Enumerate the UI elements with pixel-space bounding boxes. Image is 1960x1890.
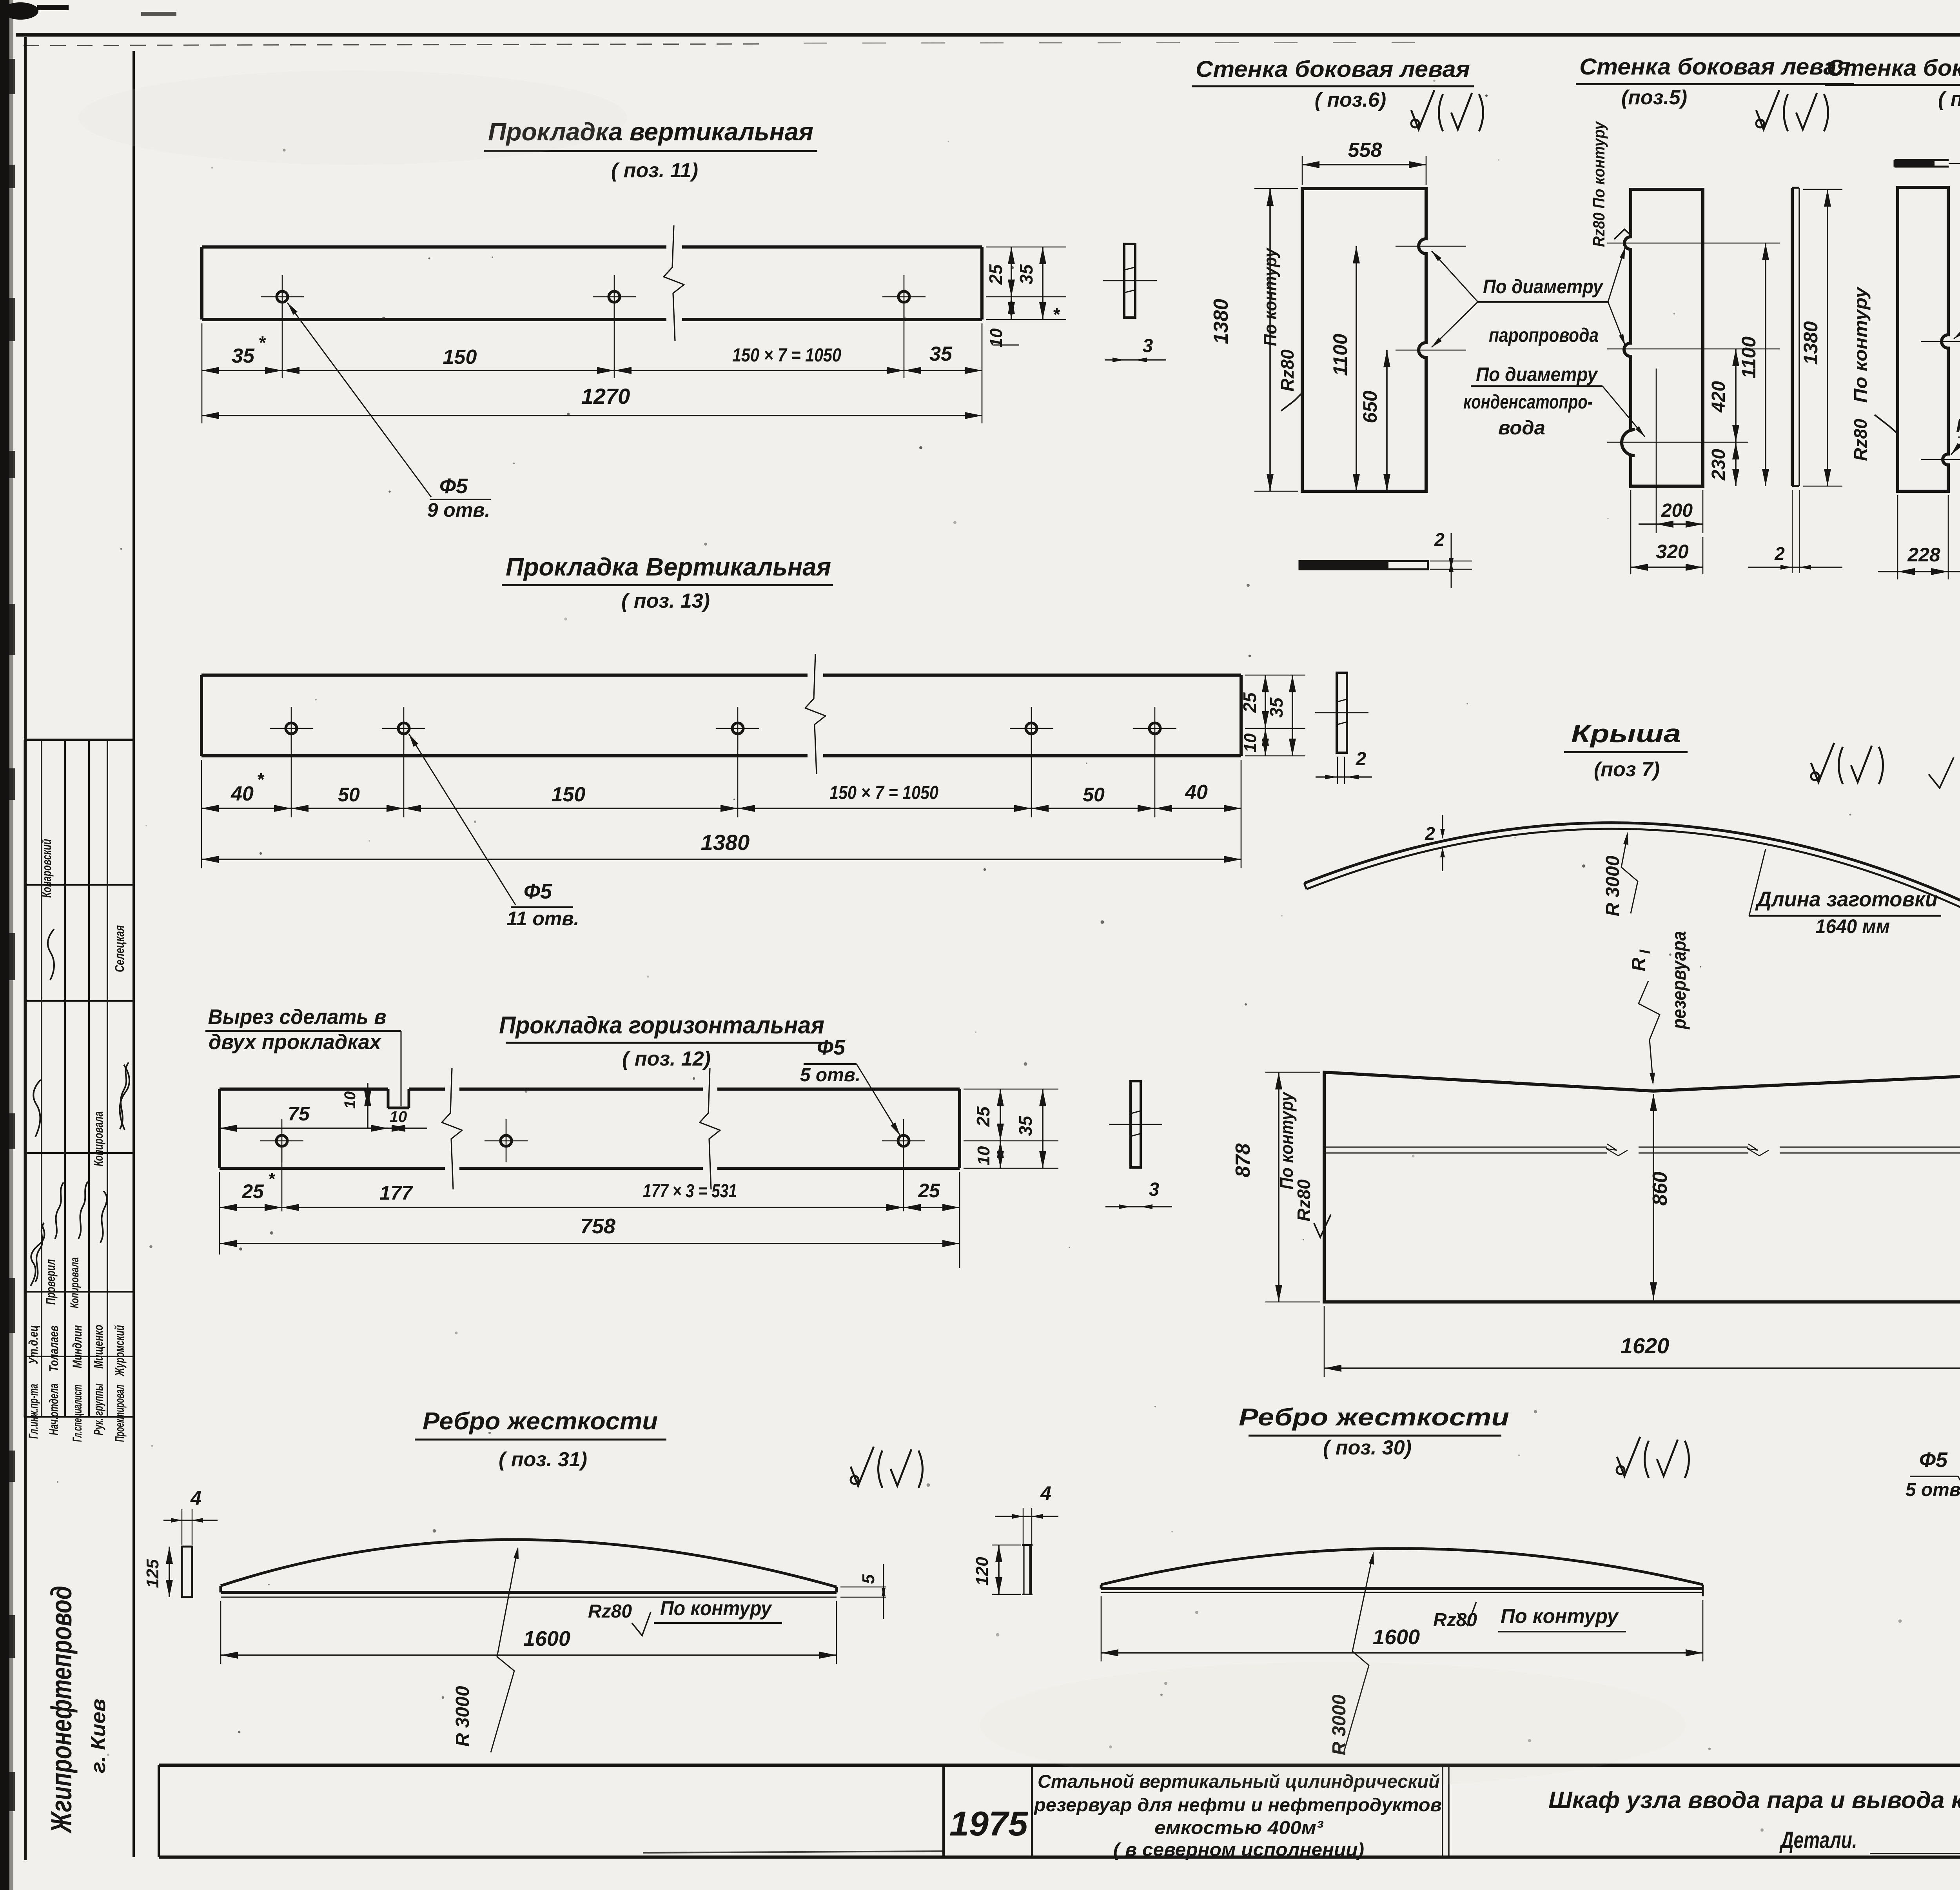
- svg-text:Прокладка горизонтальная: Прокладка горизонтальная: [499, 1012, 824, 1039]
- svg-text:(поз 7): (поз 7): [1594, 758, 1660, 781]
- pos11 hole 3: [898, 291, 909, 302]
- pos11 hole 1: [277, 291, 288, 302]
- pos11 right dims 25/35/10: [986, 247, 1066, 248]
- svg-text:R: R: [1628, 957, 1649, 971]
- pos11 side view bar: [1124, 244, 1135, 318]
- svg-text:Ф5: Ф5: [439, 474, 468, 498]
- svg-text:Мищенко: Мищенко: [91, 1325, 105, 1369]
- svg-text:35: 35: [1016, 264, 1036, 285]
- pos13 dim row2: 1380: [201, 859, 1241, 860]
- svg-text:40: 40: [1185, 781, 1208, 804]
- pos5 dim 1100: [1765, 243, 1766, 486]
- svg-text:177: 177: [379, 1182, 413, 1204]
- svg-text:150 × 7 = 1050: 150 × 7 = 1050: [829, 783, 938, 803]
- svg-text:*: *: [1053, 304, 1060, 325]
- svg-text:50: 50: [338, 784, 360, 806]
- pos11 break: [664, 225, 684, 341]
- pos6 dim 1380: [1254, 188, 1298, 189]
- pos12 dim row1: [220, 1207, 960, 1208]
- svg-text:150: 150: [443, 346, 477, 369]
- svg-text:Шкаф узла ввода пара и вывода: Шкаф узла ввода пара и вывода конденсата…: [1548, 1787, 1960, 1813]
- pos13 dim row1: [201, 808, 1241, 809]
- svg-text:35: 35: [1015, 1115, 1036, 1136]
- svg-text:Стенка боковая левая: Стенка боковая левая: [1196, 56, 1470, 82]
- svg-text:( поз. 31): ( поз. 31): [499, 1448, 587, 1471]
- pos11 hole label F5 / 9 otv: [287, 303, 431, 497]
- svg-text:125: 125: [143, 1559, 162, 1588]
- svg-text:320: 320: [1656, 541, 1689, 563]
- svg-text:Копировала: Копировала: [68, 1257, 81, 1308]
- pos13 ext lines: [201, 760, 202, 868]
- pos32 notch center lines: [1921, 341, 1960, 342]
- svg-text:конденсатопро-: конденсатопро-: [1463, 391, 1593, 413]
- svg-text:25: 25: [918, 1180, 940, 1202]
- pos5 dim 200: [1702, 490, 1704, 533]
- svg-text:758: 758: [580, 1215, 615, 1238]
- scan double line under frame: [24, 44, 764, 45]
- svg-text:1100: 1100: [1738, 336, 1760, 379]
- pos12 side view bar: [1131, 1081, 1141, 1167]
- pos5 finish mark: [1756, 90, 1779, 129]
- svg-text:*: *: [268, 1169, 275, 1189]
- pos13 hole x2631: [1026, 723, 1037, 734]
- svg-text:Копировала: Копировала: [91, 1111, 105, 1166]
- svg-text:25: 25: [1240, 692, 1260, 713]
- svg-text:( в северном исполнении): ( в северном исполнении): [1113, 1839, 1364, 1860]
- svg-text:4: 4: [190, 1487, 201, 1509]
- pos32 panel outline: [1898, 187, 1948, 491]
- svg-text:Прокладка Вертикальная: Прокладка Вертикальная: [506, 553, 831, 581]
- svg-text:*: *: [257, 769, 265, 790]
- svg-text:Гл.инж.пр-та: Гл.инж.пр-та: [26, 1384, 40, 1439]
- svg-text:емкостью 400м³: емкостью 400м³: [1154, 1817, 1323, 1838]
- svg-text:228: 228: [1907, 544, 1940, 566]
- pos31 finish mark: [851, 1447, 874, 1486]
- svg-text:200: 200: [1661, 500, 1693, 521]
- pos12 holes: [276, 1135, 287, 1146]
- svg-text:10: 10: [390, 1108, 407, 1126]
- svg-text:1620: 1620: [1621, 1333, 1670, 1358]
- pos7 fold line breaks: [1606, 1144, 1628, 1156]
- pos5 dim 320: [1630, 490, 1632, 574]
- pos12 dim row2: 758: [959, 1172, 960, 1268]
- svg-text:150 × 7 = 1050: 150 × 7 = 1050: [732, 345, 841, 366]
- svg-text:По контуру: По контуру: [1501, 1605, 1619, 1628]
- svg-text:35: 35: [1266, 697, 1287, 718]
- svg-text:( поз. 32): ( поз. 32): [1938, 88, 1960, 111]
- svg-text:5 отв.: 5 отв.: [1906, 1480, 1960, 1500]
- pos6 finish mark: [1411, 90, 1434, 129]
- pos31 side view bar: [182, 1547, 192, 1597]
- svg-text:2: 2: [1425, 823, 1435, 844]
- pos7 dim 860: [1653, 1094, 1654, 1302]
- svg-text:177 × 3 = 531: 177 × 3 = 531: [643, 1181, 737, 1202]
- svg-text:558: 558: [1348, 139, 1382, 162]
- svg-text:Ф5: Ф5: [524, 880, 552, 903]
- svg-text:1100: 1100: [1329, 334, 1351, 376]
- svg-text:г. Киев: г. Киев: [87, 1699, 110, 1773]
- svg-text:1600: 1600: [1373, 1625, 1420, 1649]
- pos11 side thickness dim 3: [1105, 359, 1166, 360]
- svg-text:1600: 1600: [523, 1627, 570, 1650]
- svg-text:( поз. 12): ( поз. 12): [622, 1048, 711, 1070]
- pos6 notch center lines: [1396, 246, 1466, 247]
- svg-text:( поз. 13): ( поз. 13): [621, 590, 710, 612]
- pos13 right dims 25/35/10: [1245, 675, 1305, 676]
- svg-text:860: 860: [1649, 1172, 1671, 1206]
- stamp table grid: [25, 739, 134, 741]
- pos5 side view bar: [1791, 188, 1794, 486]
- pos6 bottom side view: [1299, 561, 1428, 569]
- svg-text:Rz80: Rz80: [1433, 1610, 1477, 1630]
- pos5 dim 420: [1735, 349, 1737, 442]
- pos13 hole x1882: [732, 723, 743, 734]
- svg-text:Rz80 По контуру: Rz80 По контуру: [1590, 121, 1608, 247]
- pos13 hole x1030: [398, 723, 409, 734]
- pos13 side thickness dim 2: [1316, 776, 1372, 777]
- svg-text:Гл.специалист: Гл.специалист: [70, 1385, 84, 1442]
- svg-text:резервуар для нефти и нефтепро: резервуар для нефти и нефтепродуктов: [1033, 1794, 1442, 1815]
- svg-text:Проектировал: Проектировал: [113, 1385, 127, 1442]
- svg-text:1640 мм: 1640 мм: [1815, 915, 1890, 937]
- svg-text:Ф5: Ф5: [817, 1036, 846, 1059]
- pos13 hole x743: [286, 723, 297, 734]
- frame left second line (stamp right edge): [132, 51, 135, 1857]
- svg-text:10: 10: [1241, 733, 1260, 752]
- svg-text:40: 40: [230, 783, 254, 805]
- title block outline: [159, 1764, 1960, 1767]
- pos11 dim row1: 35/150/150x7=1050/35: [202, 370, 982, 371]
- svg-text:1975: 1975: [949, 1804, 1028, 1843]
- svg-text:резервуара: резервуара: [1668, 931, 1690, 1030]
- svg-text:25: 25: [241, 1180, 264, 1202]
- svg-text:вода: вода: [1498, 417, 1545, 439]
- svg-text:5 отв.: 5 отв.: [800, 1065, 860, 1086]
- svg-text:50: 50: [1083, 784, 1105, 806]
- svg-text:9 отв.: 9 отв.: [427, 499, 490, 521]
- svg-text:По контуру: По контуру: [1276, 1091, 1297, 1189]
- svg-text:По контуру: По контуру: [1260, 247, 1280, 346]
- pos5 sidebar dim 1380: [1803, 189, 1842, 190]
- svg-text:паропровода: паропровода: [1489, 324, 1599, 346]
- pos7 roof arc inner: [1307, 829, 1960, 913]
- pos13 side view bar: [1337, 673, 1347, 753]
- svg-text:По контуру: По контуру: [1850, 286, 1871, 403]
- svg-text:Толалаев: Толалаев: [47, 1325, 61, 1372]
- svg-text:2: 2: [1774, 543, 1785, 564]
- pos11 dim row2: 1270: [202, 415, 982, 416]
- pos5 dim 230: [1735, 442, 1737, 486]
- svg-text:2: 2: [1356, 749, 1367, 770]
- svg-text:10: 10: [974, 1146, 993, 1165]
- pos30 dim 120: [992, 1545, 1021, 1545]
- svg-text:Rz80: Rz80: [588, 1601, 632, 1622]
- frame top line: [16, 33, 1960, 37]
- pos5 panel outline with notches and slot: [1622, 189, 1703, 486]
- svg-text:420: 420: [1708, 381, 1729, 413]
- pos12 right dims 25/35/10: [964, 1089, 1058, 1090]
- pos12 ext lines: [281, 1148, 283, 1211]
- svg-text:Ребро жесткости: Ребро жесткости: [1239, 1404, 1509, 1431]
- svg-text:25: 25: [973, 1106, 993, 1127]
- svg-text:Rz80: Rz80: [1850, 419, 1871, 461]
- pos12 breaks: [442, 1068, 462, 1189]
- svg-text:Крыша: Крыша: [1571, 719, 1681, 748]
- svg-text:1380: 1380: [701, 830, 750, 855]
- svg-text:Ут.д.ец: Ут.д.ец: [26, 1325, 40, 1364]
- pos5 notch center lines: [1607, 243, 1780, 244]
- svg-text:R22,5: R22,5: [1956, 416, 1960, 436]
- svg-text:Ф5: Ф5: [1919, 1448, 1948, 1472]
- pos7 dim 1620: [1324, 1306, 1325, 1377]
- leaders to notches: [1432, 251, 1478, 302]
- pos7 dim 878: [1265, 1072, 1320, 1073]
- svg-text:Rz80: Rz80: [1277, 349, 1298, 392]
- svg-text:10: 10: [341, 1091, 359, 1109]
- svg-text:120: 120: [973, 1557, 992, 1586]
- svg-text:11 отв.: 11 отв.: [507, 908, 579, 930]
- pos13 hole x2946: [1149, 723, 1160, 734]
- pos13 strip outline: [201, 674, 808, 677]
- svg-text:Проверил: Проверил: [44, 1259, 58, 1305]
- scan edge left band: [0, 0, 9, 1890]
- stamp signatures: [31, 1225, 44, 1286]
- svg-text:Журомский: Журомский: [113, 1325, 127, 1376]
- svg-text:150: 150: [552, 783, 586, 806]
- svg-text:R 3000: R 3000: [452, 1686, 473, 1747]
- svg-text:( поз.6): ( поз.6): [1315, 89, 1387, 111]
- svg-text:Детали.: Детали.: [1779, 1827, 1857, 1853]
- pos13 hole label F5 / 11 otv: [409, 734, 515, 905]
- pos32 top side view: [1895, 159, 1949, 161]
- svg-text:75: 75: [288, 1103, 310, 1125]
- svg-text:Конаровский: Конаровский: [40, 839, 54, 898]
- pos6 dim 558: [1302, 156, 1303, 185]
- pos31 dim 125: [169, 1547, 170, 1597]
- svg-text:25: 25: [985, 264, 1006, 285]
- pos6 panel outline: [1302, 189, 1426, 491]
- svg-text:3: 3: [1149, 1179, 1160, 1200]
- svg-text:*: *: [258, 332, 266, 353]
- svg-text:35: 35: [929, 343, 953, 365]
- svg-text:Жгипронефтепровод: Жгипронефтепровод: [45, 1586, 78, 1834]
- svg-text:650: 650: [1359, 390, 1381, 423]
- svg-text:878: 878: [1232, 1144, 1254, 1178]
- pos31 rib outline: [221, 1540, 837, 1587]
- svg-text:( поз. 11): ( поз. 11): [611, 159, 698, 182]
- svg-text:(поз.5): (поз.5): [1621, 86, 1687, 109]
- pos30 rib outline: [1101, 1549, 1703, 1585]
- svg-text:По контуру: По контуру: [660, 1597, 773, 1620]
- svg-text:5: 5: [859, 1574, 878, 1584]
- pos31 dim 1600: [220, 1601, 221, 1664]
- pos11 ext lines: [201, 323, 203, 423]
- pos30 dim 1600: [1101, 1596, 1102, 1661]
- pos32 dim 228: [1897, 495, 1898, 579]
- svg-text:35: 35: [232, 345, 255, 367]
- leader to slot: [1602, 386, 1645, 437]
- pos12 dim 75: [219, 1172, 220, 1255]
- pos30 finish mark: [1617, 1437, 1640, 1476]
- pos7 finish mark: [1811, 743, 1834, 782]
- pos12 note leader: [401, 1031, 402, 1106]
- pos11 strip outline: [202, 245, 666, 249]
- pos7 roof arc outer: [1304, 823, 1960, 908]
- svg-text:4: 4: [1040, 1482, 1051, 1504]
- svg-text:1380: 1380: [1800, 321, 1822, 365]
- svg-text:Rz80: Rz80: [1294, 1179, 1314, 1222]
- scan blob top-left: [2, 2, 38, 20]
- svg-text:1380: 1380: [1210, 299, 1232, 344]
- svg-text:Стенка боковая левая: Стенка боковая левая: [1827, 55, 1960, 81]
- svg-text:l: l: [1637, 949, 1654, 954]
- svg-text:двух прокладках: двух прокладках: [209, 1030, 382, 1054]
- svg-text:Длина заготовки: Длина заготовки: [1755, 888, 1938, 911]
- pos12 side thickness dim 3: [1105, 1206, 1172, 1207]
- svg-text:Рук. группы: Рук. группы: [91, 1383, 105, 1435]
- svg-text:( поз. 30): ( поз. 30): [1323, 1436, 1412, 1459]
- pos7 plate fold lines: [1324, 1147, 1607, 1148]
- pos12 notch dims 10/10: [367, 1083, 368, 1129]
- pos11 hole 2: [609, 291, 620, 302]
- frame left inner line: [24, 37, 27, 1860]
- svg-text:R 3000: R 3000: [1602, 855, 1623, 916]
- svg-text:Ребро жесткости: Ребро жесткости: [423, 1408, 658, 1435]
- pos6 dim 1100: [1356, 246, 1357, 491]
- small check mark left of pos8: [1929, 757, 1954, 788]
- svg-text:1270: 1270: [581, 384, 630, 409]
- pos7 plate outline: [1324, 1072, 1960, 1302]
- pos13 break: [805, 654, 826, 774]
- pos12 strip outline with notch: [220, 1088, 388, 1091]
- svg-text:Стенка боковая левая: Стенка боковая левая: [1579, 54, 1851, 80]
- svg-text:230: 230: [1708, 449, 1729, 481]
- svg-text:По диаметру: По диаметру: [1483, 276, 1604, 298]
- svg-text:По диаметру: По диаметру: [1476, 363, 1598, 385]
- svg-text:Вырез сделать в: Вырез сделать в: [208, 1005, 387, 1029]
- svg-text:2: 2: [1434, 529, 1445, 550]
- svg-text:3: 3: [1143, 336, 1153, 356]
- svg-text:Нач.отдела: Нач.отдела: [47, 1383, 61, 1435]
- svg-text:Селецкая: Селецкая: [113, 925, 127, 972]
- pos6 dim 650: [1386, 350, 1388, 491]
- svg-text:Миндлин: Миндлин: [70, 1325, 84, 1368]
- pos30 side view bar: [1023, 1545, 1024, 1594]
